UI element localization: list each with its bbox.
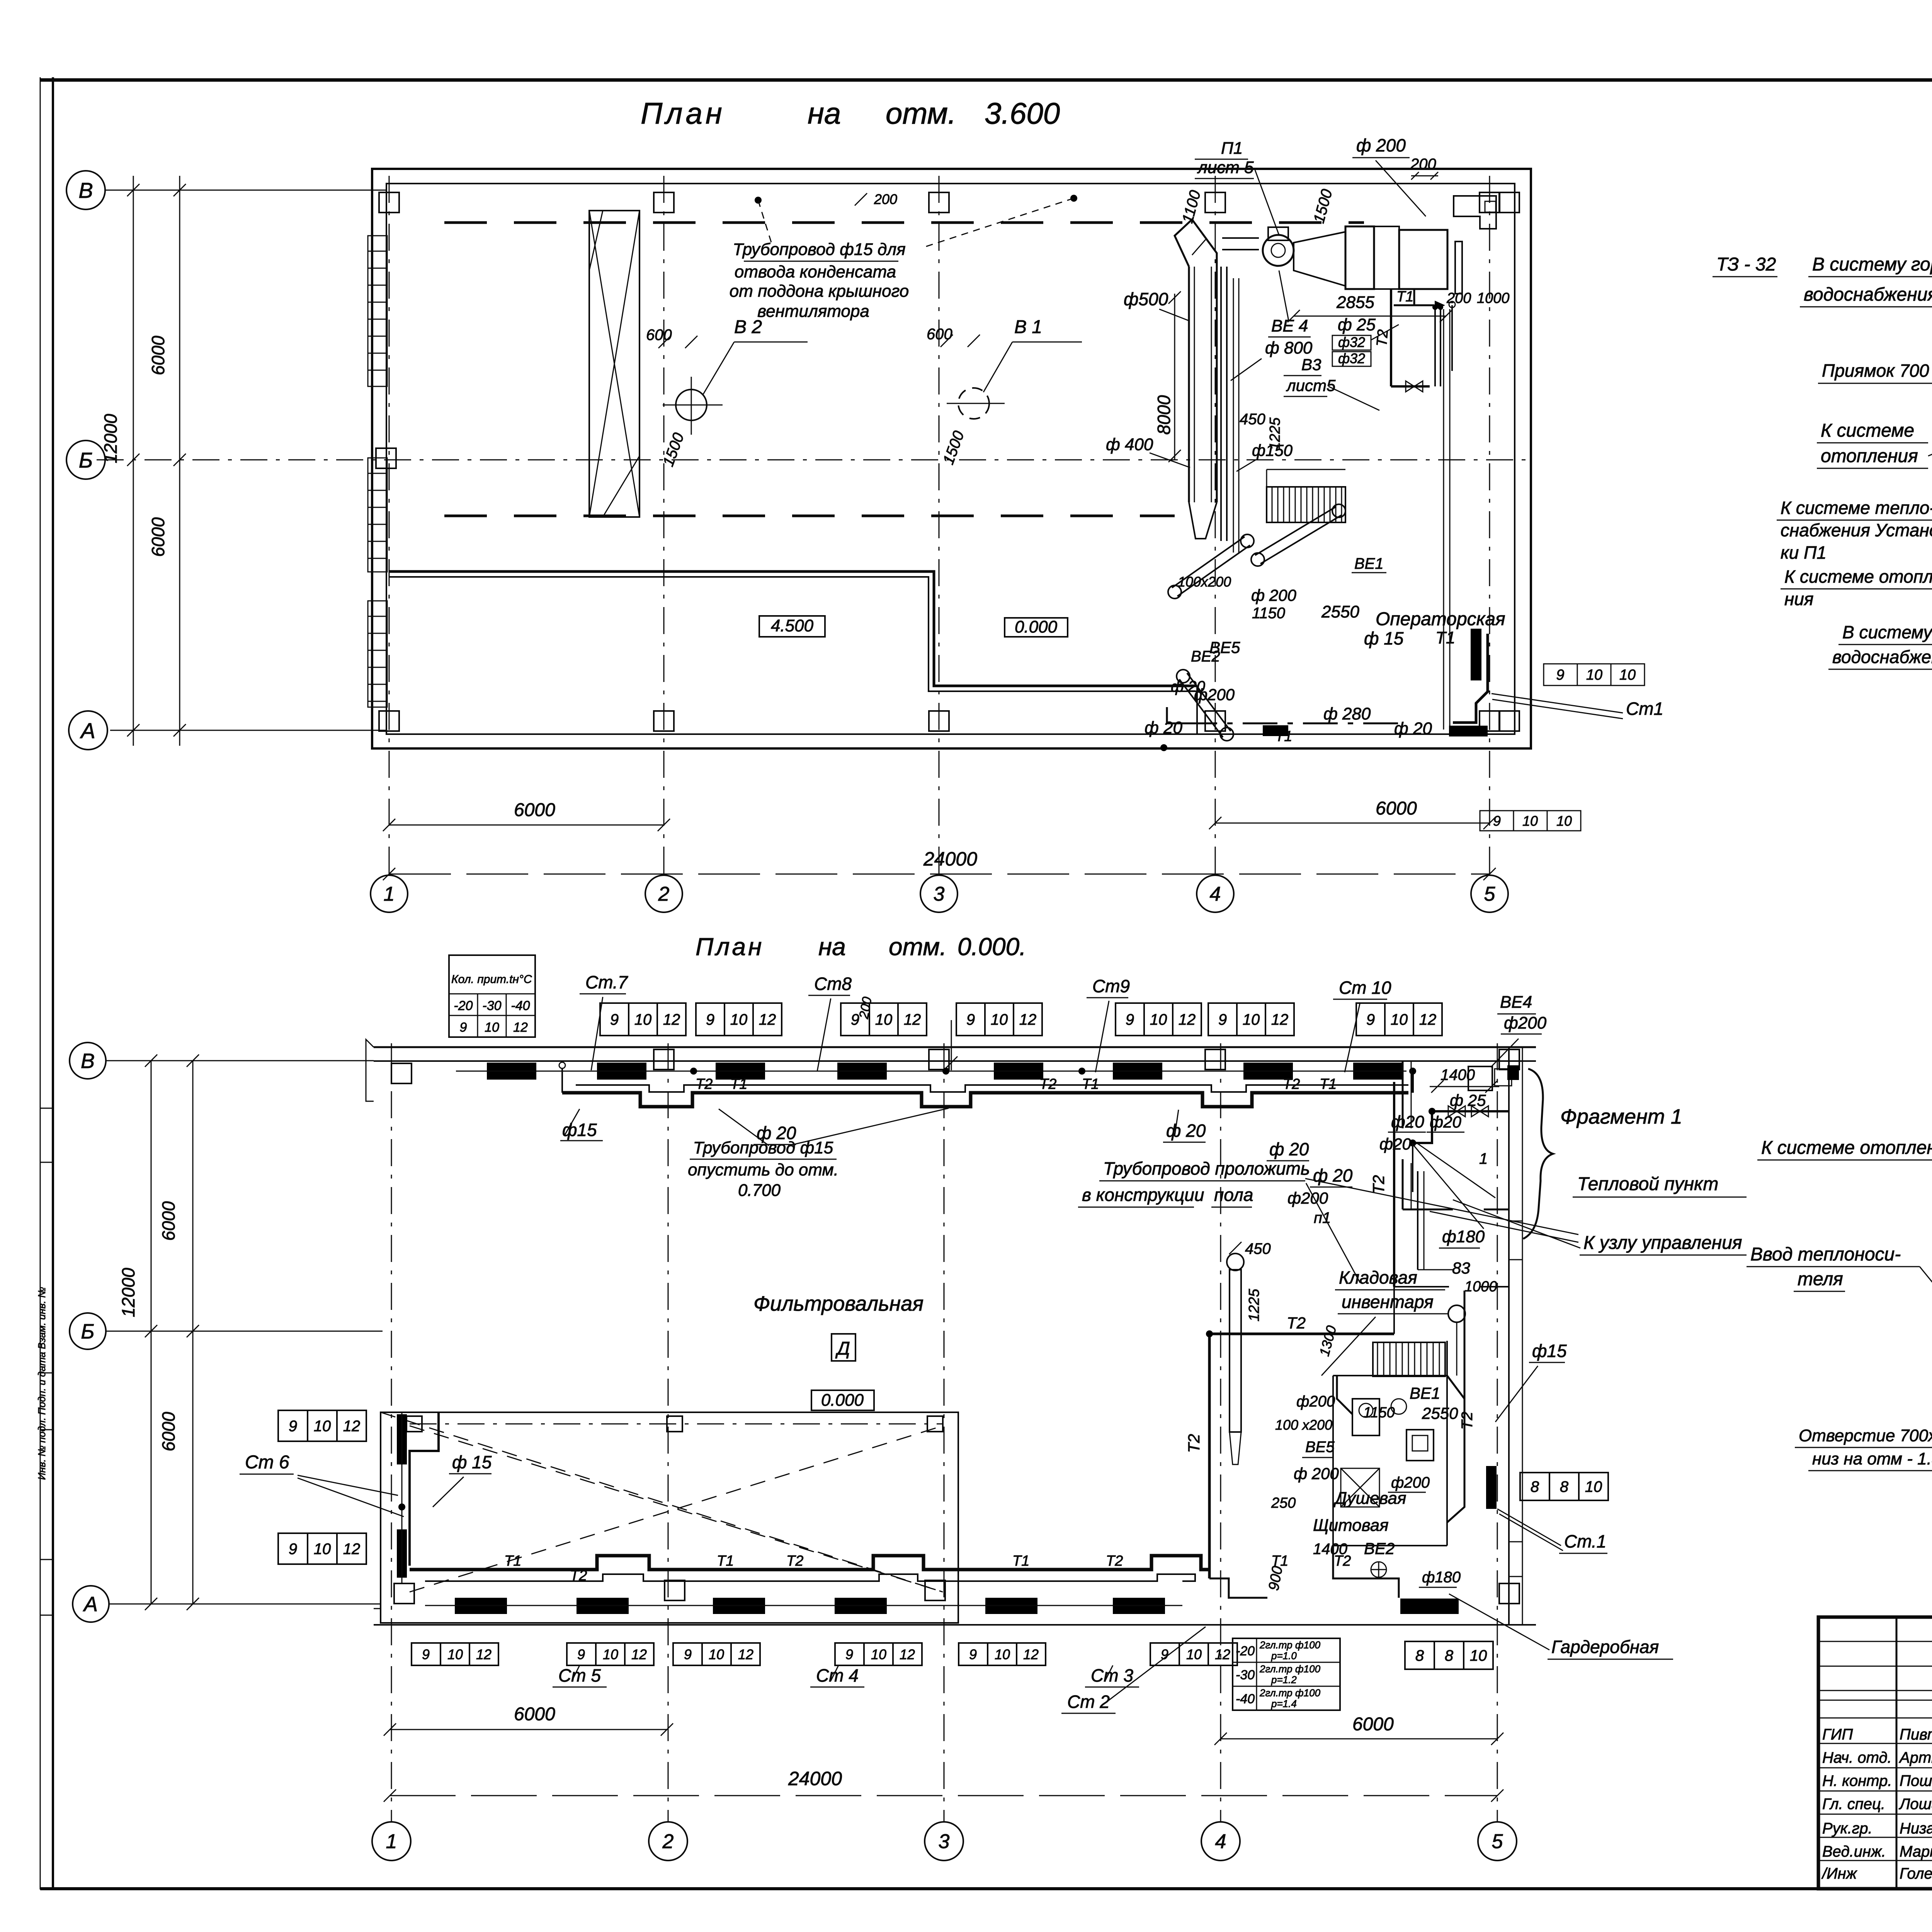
svg-text:Т1: Т1 xyxy=(1435,628,1455,647)
svg-text:Пивтарак: Пивтарак xyxy=(1900,1726,1932,1743)
svg-text:10: 10 xyxy=(991,1011,1008,1028)
svg-text:ф 200: ф 200 xyxy=(1251,586,1296,604)
svg-text:ф20: ф20 xyxy=(1391,1112,1424,1131)
svg-text:4: 4 xyxy=(1215,1830,1226,1853)
svg-text:Фильтровальная: Фильтровальная xyxy=(753,1292,923,1315)
svg-text:9: 9 xyxy=(684,1646,692,1662)
svg-text:План: План xyxy=(641,96,725,130)
svg-text:Инв. № подл. Подп. и дата: Инв. № подл. Подп. и дата Взам. инв. № xyxy=(36,1287,48,1480)
svg-text:10: 10 xyxy=(485,1020,499,1035)
svg-text:ВЕ 4: ВЕ 4 xyxy=(1271,316,1308,335)
svg-text:Т2: Т2 xyxy=(1185,1434,1203,1453)
svg-text:6000: 6000 xyxy=(148,335,168,375)
svg-text:ф 280: ф 280 xyxy=(1323,704,1371,723)
svg-text:4.500: 4.500 xyxy=(771,616,814,635)
svg-text:9: 9 xyxy=(706,1011,714,1028)
svg-text:10: 10 xyxy=(314,1541,331,1558)
svg-text:ф 15: ф 15 xyxy=(1364,628,1404,648)
svg-text:Кладовая: Кладовая xyxy=(1339,1267,1417,1287)
svg-text:6000: 6000 xyxy=(148,517,168,557)
svg-text:2гл.тр ф100: 2гл.тр ф100 xyxy=(1259,1639,1321,1651)
svg-text:9: 9 xyxy=(289,1541,297,1558)
svg-text:10: 10 xyxy=(1391,1011,1408,1028)
svg-text:12: 12 xyxy=(343,1541,361,1558)
svg-text:8: 8 xyxy=(1415,1647,1424,1664)
svg-text:10: 10 xyxy=(709,1646,724,1662)
svg-text:2855: 2855 xyxy=(1336,293,1374,312)
svg-text:2550: 2550 xyxy=(1422,1404,1458,1422)
svg-text:ф 15: ф 15 xyxy=(452,1452,492,1472)
svg-text:Артюшенко: Артюшенко xyxy=(1899,1749,1932,1766)
svg-text:ф20: ф20 xyxy=(1379,1135,1411,1153)
svg-text:83: 83 xyxy=(1452,1259,1470,1277)
svg-text:А: А xyxy=(80,718,95,743)
svg-text:ф200: ф200 xyxy=(1287,1189,1328,1207)
svg-text:9: 9 xyxy=(610,1011,619,1028)
svg-text:ф32: ф32 xyxy=(1338,334,1365,350)
svg-text:10: 10 xyxy=(1470,1647,1487,1664)
svg-text:Рук.гр.: Рук.гр. xyxy=(1822,1820,1872,1837)
svg-text:Т1: Т1 xyxy=(1082,1076,1099,1092)
svg-text:Ст 10: Ст 10 xyxy=(1339,978,1391,998)
svg-text:В систему горячего: В систему горячего xyxy=(1812,254,1932,275)
svg-text:12: 12 xyxy=(1179,1011,1196,1028)
svg-text:2: 2 xyxy=(662,1830,674,1853)
svg-text:ф 800: ф 800 xyxy=(1265,338,1313,357)
svg-text:6000: 6000 xyxy=(158,1412,179,1451)
svg-text:1: 1 xyxy=(1479,1150,1488,1167)
svg-text:0.700: 0.700 xyxy=(738,1181,781,1200)
svg-text:Гл. спец.: Гл. спец. xyxy=(1822,1796,1885,1813)
svg-text:В систему горячего: В систему горячего xyxy=(1842,622,1932,642)
svg-text:от поддона крышного: от поддона крышного xyxy=(730,282,909,301)
svg-text:6000: 6000 xyxy=(514,1704,555,1725)
svg-text:6000: 6000 xyxy=(1352,1714,1394,1735)
svg-text:Т1: Т1 xyxy=(1396,289,1413,305)
svg-text:12: 12 xyxy=(1215,1646,1230,1662)
svg-text:ф32: ф32 xyxy=(1338,350,1365,366)
svg-text:9: 9 xyxy=(969,1646,977,1662)
svg-text:10: 10 xyxy=(447,1646,463,1662)
svg-text:Т2: Т2 xyxy=(696,1076,713,1092)
svg-text:9: 9 xyxy=(1556,667,1564,683)
svg-text:ф20: ф20 xyxy=(1430,1113,1461,1131)
svg-text:200: 200 xyxy=(1446,290,1471,306)
svg-text:1: 1 xyxy=(384,883,395,905)
svg-text:Ст 6: Ст 6 xyxy=(245,1452,289,1473)
svg-text:ф 200: ф 200 xyxy=(1356,135,1406,155)
svg-text:вентилятора: вентилятора xyxy=(757,302,869,321)
svg-text:-40: -40 xyxy=(1236,1692,1255,1706)
svg-text:инвентаря: инвентаря xyxy=(1342,1292,1434,1312)
svg-text:2: 2 xyxy=(658,883,670,905)
svg-text:Голендер: Голендер xyxy=(1900,1865,1932,1882)
svg-text:9: 9 xyxy=(460,1020,467,1035)
svg-text:-30: -30 xyxy=(1236,1668,1255,1682)
svg-text:лист 5: лист 5 xyxy=(1197,158,1254,177)
svg-text:В: В xyxy=(81,1049,95,1073)
svg-text:24000: 24000 xyxy=(923,848,977,870)
svg-text:Ст 5: Ст 5 xyxy=(558,1665,601,1685)
svg-text:Т2: Т2 xyxy=(1283,1076,1300,1092)
svg-text:9: 9 xyxy=(966,1011,975,1028)
svg-text:ния: ния xyxy=(1784,589,1813,609)
svg-text:10: 10 xyxy=(871,1646,886,1662)
svg-text:250: 250 xyxy=(1271,1495,1296,1511)
svg-text:Т1: Т1 xyxy=(730,1076,747,1092)
svg-text:1000: 1000 xyxy=(1477,290,1510,306)
svg-text:10: 10 xyxy=(1585,1478,1602,1495)
svg-text:К системе тепло-: К системе тепло- xyxy=(1781,498,1932,518)
svg-text:ф180: ф180 xyxy=(1442,1227,1485,1246)
svg-text:Т2: Т2 xyxy=(1039,1076,1056,1092)
svg-text:Душевая: Душевая xyxy=(1333,1489,1406,1508)
svg-text:ф200: ф200 xyxy=(1391,1474,1430,1491)
svg-text:12: 12 xyxy=(1271,1011,1289,1028)
svg-text:Т1: Т1 xyxy=(1320,1076,1337,1092)
svg-text:9: 9 xyxy=(1366,1011,1375,1028)
svg-text:600: 600 xyxy=(927,326,952,343)
svg-text:В 1: В 1 xyxy=(1014,317,1042,337)
svg-text:10: 10 xyxy=(634,1011,652,1028)
svg-text:ТЗ - 32: ТЗ - 32 xyxy=(1716,254,1776,275)
svg-text:Ввод теплоноси-: Ввод теплоноси- xyxy=(1750,1244,1901,1265)
svg-text:Д: Д xyxy=(835,1338,850,1359)
svg-text:8: 8 xyxy=(1531,1478,1539,1495)
svg-text:10: 10 xyxy=(603,1646,618,1662)
svg-text:ВЕ2: ВЕ2 xyxy=(1191,648,1220,665)
svg-text:Пошакова: Пошакова xyxy=(1900,1772,1932,1789)
svg-text:10: 10 xyxy=(1619,667,1636,683)
svg-text:на: на xyxy=(808,96,841,130)
svg-text:2гл.тр ф100: 2гл.тр ф100 xyxy=(1259,1687,1321,1699)
svg-text:12: 12 xyxy=(1019,1011,1037,1028)
svg-text:10: 10 xyxy=(1556,813,1572,829)
svg-text:8: 8 xyxy=(1560,1478,1569,1495)
svg-text:10: 10 xyxy=(1186,1646,1202,1662)
svg-text:Т2: Т2 xyxy=(786,1553,803,1569)
svg-text:Операторская: Операторская xyxy=(1376,609,1505,629)
svg-text:10: 10 xyxy=(875,1011,893,1028)
svg-text:П1: П1 xyxy=(1221,139,1243,158)
svg-text:12: 12 xyxy=(343,1418,361,1435)
svg-text:10: 10 xyxy=(1150,1011,1167,1028)
svg-text:Трубопровод проложить: Трубопровод проложить xyxy=(1103,1158,1310,1179)
svg-text:Приямок 700 х1200 х 1400 h: Приямок 700 х1200 х 1400 h xyxy=(1822,361,1932,381)
svg-text:9: 9 xyxy=(577,1646,585,1662)
svg-text:200: 200 xyxy=(874,191,897,207)
svg-text:ВЕ4: ВЕ4 xyxy=(1500,993,1532,1012)
svg-text:ф 20: ф 20 xyxy=(1313,1165,1353,1185)
svg-text:Кол. прит.tн°С: Кол. прит.tн°С xyxy=(451,973,532,986)
svg-text:Т1: Т1 xyxy=(504,1553,521,1569)
svg-text:Лошакова: Лошакова xyxy=(1898,1796,1932,1813)
svg-text:Т1: Т1 xyxy=(717,1553,734,1569)
svg-text:12: 12 xyxy=(476,1646,492,1662)
svg-text:р=1.0: р=1.0 xyxy=(1271,1650,1297,1662)
svg-text:10: 10 xyxy=(314,1418,331,1435)
svg-text:12: 12 xyxy=(663,1011,680,1028)
svg-text:ВЕ5: ВЕ5 xyxy=(1305,1439,1335,1456)
svg-text:6000: 6000 xyxy=(158,1201,179,1241)
svg-text:ВЕ2: ВЕ2 xyxy=(1364,1539,1395,1558)
svg-text:Ст.7: Ст.7 xyxy=(585,972,628,992)
svg-text:Ст 3: Ст 3 xyxy=(1091,1665,1133,1685)
svg-text:10: 10 xyxy=(1522,813,1538,829)
svg-text:2550: 2550 xyxy=(1321,602,1359,621)
svg-text:24000: 24000 xyxy=(788,1768,842,1789)
svg-text:12: 12 xyxy=(513,1020,528,1035)
svg-text:ф 20: ф 20 xyxy=(757,1123,796,1143)
svg-text:План: План xyxy=(696,933,764,961)
svg-text:9: 9 xyxy=(422,1646,430,1662)
svg-text:12: 12 xyxy=(1023,1646,1039,1662)
svg-text:Нач. отд.: Нач. отд. xyxy=(1822,1749,1892,1766)
svg-text:пола: пола xyxy=(1214,1185,1253,1205)
svg-text:ф 200: ф 200 xyxy=(1294,1464,1339,1483)
svg-text:1400: 1400 xyxy=(1313,1541,1347,1558)
svg-text:К системе отопле-: К системе отопле- xyxy=(1784,566,1932,587)
svg-text:10: 10 xyxy=(995,1646,1010,1662)
svg-text:А: А xyxy=(83,1593,98,1616)
svg-text:В: В xyxy=(78,178,93,202)
svg-text:Т2: Т2 xyxy=(1369,1175,1388,1194)
svg-text:Гардеробная: Гардеробная xyxy=(1551,1637,1659,1657)
svg-text:ки П1: ки П1 xyxy=(1781,543,1827,563)
svg-text:9: 9 xyxy=(1126,1011,1134,1028)
svg-text:-20: -20 xyxy=(454,998,473,1013)
svg-text:Марковкина: Марковкина xyxy=(1900,1843,1932,1860)
svg-text:снабжения Установ-: снабжения Установ- xyxy=(1781,520,1932,540)
svg-text:Ст8: Ст8 xyxy=(814,974,852,994)
svg-text:100 х200: 100 х200 xyxy=(1275,1417,1332,1433)
svg-text:Щитовая: Щитовая xyxy=(1313,1516,1389,1535)
svg-text:ВЕ1: ВЕ1 xyxy=(1354,555,1384,572)
svg-text:Трубопровод ф15 для: Трубопровод ф15 для xyxy=(733,240,905,259)
svg-text:ф150: ф150 xyxy=(1252,441,1293,459)
svg-text:9: 9 xyxy=(289,1418,297,1435)
svg-text:Т2: Т2 xyxy=(1106,1553,1123,1569)
svg-text:5: 5 xyxy=(1484,883,1496,905)
svg-text:К узлу управления: К узлу управления xyxy=(1583,1233,1742,1253)
svg-text:водоснабжения ф 32: водоснабжения ф 32 xyxy=(1832,647,1932,667)
svg-text:ф 20: ф 20 xyxy=(1394,719,1432,738)
svg-text:100х200: 100х200 xyxy=(1178,574,1231,590)
svg-text:1150: 1150 xyxy=(1252,605,1285,622)
svg-text:3: 3 xyxy=(939,1830,950,1853)
svg-text:9: 9 xyxy=(1218,1011,1227,1028)
svg-text:ГИП: ГИП xyxy=(1822,1726,1853,1743)
svg-text:/Инж: /Инж xyxy=(1821,1865,1857,1882)
svg-text:ф180: ф180 xyxy=(1422,1569,1461,1586)
svg-text:10: 10 xyxy=(730,1011,748,1028)
svg-text:Б: Б xyxy=(81,1320,94,1343)
svg-text:Т1: Т1 xyxy=(1012,1553,1029,1569)
svg-text:Т2: Т2 xyxy=(570,1568,587,1584)
svg-text:Ст.1: Ст.1 xyxy=(1564,1531,1606,1551)
svg-text:ф200: ф200 xyxy=(1296,1393,1335,1410)
svg-text:опустить до отм.: опустить до отм. xyxy=(688,1160,838,1179)
svg-text:ф 25: ф 25 xyxy=(1450,1091,1486,1109)
svg-text:450: 450 xyxy=(1245,1240,1271,1257)
svg-text:лист5: лист5 xyxy=(1286,376,1336,395)
svg-text:-30: -30 xyxy=(482,998,501,1013)
svg-text:1150: 1150 xyxy=(1363,1405,1395,1421)
svg-text:Отверстие 700х450(h): Отверстие 700х450(h) xyxy=(1799,1426,1932,1445)
svg-text:1000: 1000 xyxy=(1464,1279,1497,1295)
svg-text:12: 12 xyxy=(900,1646,915,1662)
svg-text:3: 3 xyxy=(934,883,945,905)
svg-text:0.000: 0.000 xyxy=(821,1391,864,1410)
svg-text:отм.: отм. xyxy=(889,933,947,961)
svg-text:12: 12 xyxy=(759,1011,776,1028)
svg-text:Фрагмент 1: Фрагмент 1 xyxy=(1560,1105,1682,1128)
svg-text:Н. контр.: Н. контр. xyxy=(1822,1772,1892,1789)
svg-text:Т2: Т2 xyxy=(1459,1412,1476,1430)
svg-text:12: 12 xyxy=(631,1646,647,1662)
svg-text:12000: 12000 xyxy=(100,414,121,463)
svg-text:-20: -20 xyxy=(1236,1644,1255,1658)
svg-text:10: 10 xyxy=(1586,667,1602,683)
svg-text:ф 20: ф 20 xyxy=(1166,1121,1206,1141)
svg-text:9: 9 xyxy=(1493,813,1501,829)
svg-text:8: 8 xyxy=(1445,1647,1454,1664)
svg-text:ф 25: ф 25 xyxy=(1338,315,1376,334)
svg-text:ф 20: ф 20 xyxy=(1145,718,1182,737)
svg-text:Т2: Т2 xyxy=(1287,1314,1306,1332)
svg-text:теля: теля xyxy=(1798,1269,1843,1289)
svg-text:2гл.тр ф100: 2гл.тр ф100 xyxy=(1259,1663,1321,1675)
svg-text:Тепловой пункт: Тепловой пункт xyxy=(1577,1174,1718,1194)
svg-text:-40: -40 xyxy=(511,998,530,1013)
svg-text:4: 4 xyxy=(1210,883,1221,905)
svg-text:12: 12 xyxy=(904,1011,921,1028)
svg-text:на: на xyxy=(818,933,846,961)
svg-text:1: 1 xyxy=(386,1830,397,1853)
svg-text:Ст 2: Ст 2 xyxy=(1067,1692,1110,1712)
svg-text:К системе: К системе xyxy=(1821,420,1914,441)
svg-text:Б: Б xyxy=(79,448,93,472)
svg-text:1225: 1225 xyxy=(1246,1289,1262,1321)
svg-text:Т2: Т2 xyxy=(1374,329,1391,347)
svg-text:1400: 1400 xyxy=(1440,1066,1475,1083)
svg-text:Ст1: Ст1 xyxy=(1626,699,1663,719)
svg-text:3.600: 3.600 xyxy=(985,96,1060,130)
svg-text:ф200: ф200 xyxy=(1504,1014,1547,1032)
svg-text:0.000.: 0.000. xyxy=(957,933,1026,961)
svg-text:600: 600 xyxy=(646,327,672,344)
svg-text:Низамова: Низамова xyxy=(1900,1820,1932,1837)
svg-text:Вед.инж.: Вед.инж. xyxy=(1822,1843,1886,1860)
svg-text:8000: 8000 xyxy=(1154,395,1174,435)
svg-text:отопления: отопления xyxy=(1821,446,1918,466)
svg-text:200: 200 xyxy=(1410,156,1436,173)
svg-text:р=1.2: р=1.2 xyxy=(1271,1674,1297,1685)
svg-text:0.000: 0.000 xyxy=(1015,617,1058,636)
svg-text:В3: В3 xyxy=(1301,355,1321,374)
svg-text:Ст9: Ст9 xyxy=(1092,976,1130,996)
svg-text:9: 9 xyxy=(845,1646,853,1662)
svg-text:12000: 12000 xyxy=(118,1268,138,1317)
svg-text:водоснабжения: водоснабжения xyxy=(1804,284,1932,305)
svg-text:ф 20: ф 20 xyxy=(1269,1139,1309,1159)
svg-text:6000: 6000 xyxy=(514,800,555,820)
svg-text:5: 5 xyxy=(1492,1830,1503,1853)
svg-text:ф500: ф500 xyxy=(1124,289,1168,309)
svg-text:12: 12 xyxy=(738,1646,753,1662)
svg-text:в конструкции: в конструкции xyxy=(1082,1185,1204,1205)
svg-text:ф15: ф15 xyxy=(1532,1341,1567,1361)
svg-text:низ на отм - 1.300: низ на отм - 1.300 xyxy=(1812,1449,1932,1468)
svg-text:450: 450 xyxy=(1240,411,1265,428)
svg-text:12: 12 xyxy=(1419,1011,1437,1028)
svg-text:отвода конденсата: отвода конденсата xyxy=(735,262,896,281)
svg-text:ф 400: ф 400 xyxy=(1106,435,1153,454)
svg-text:К системе отопления: К системе отопления xyxy=(1761,1138,1932,1158)
svg-text:отм.: отм. xyxy=(886,96,956,130)
svg-text:10: 10 xyxy=(1243,1011,1260,1028)
svg-text:р=1.4: р=1.4 xyxy=(1271,1698,1297,1709)
svg-text:6000: 6000 xyxy=(1376,798,1417,819)
svg-text:ВЕ1: ВЕ1 xyxy=(1410,1384,1440,1402)
svg-text:ф 20: ф 20 xyxy=(1171,678,1205,695)
